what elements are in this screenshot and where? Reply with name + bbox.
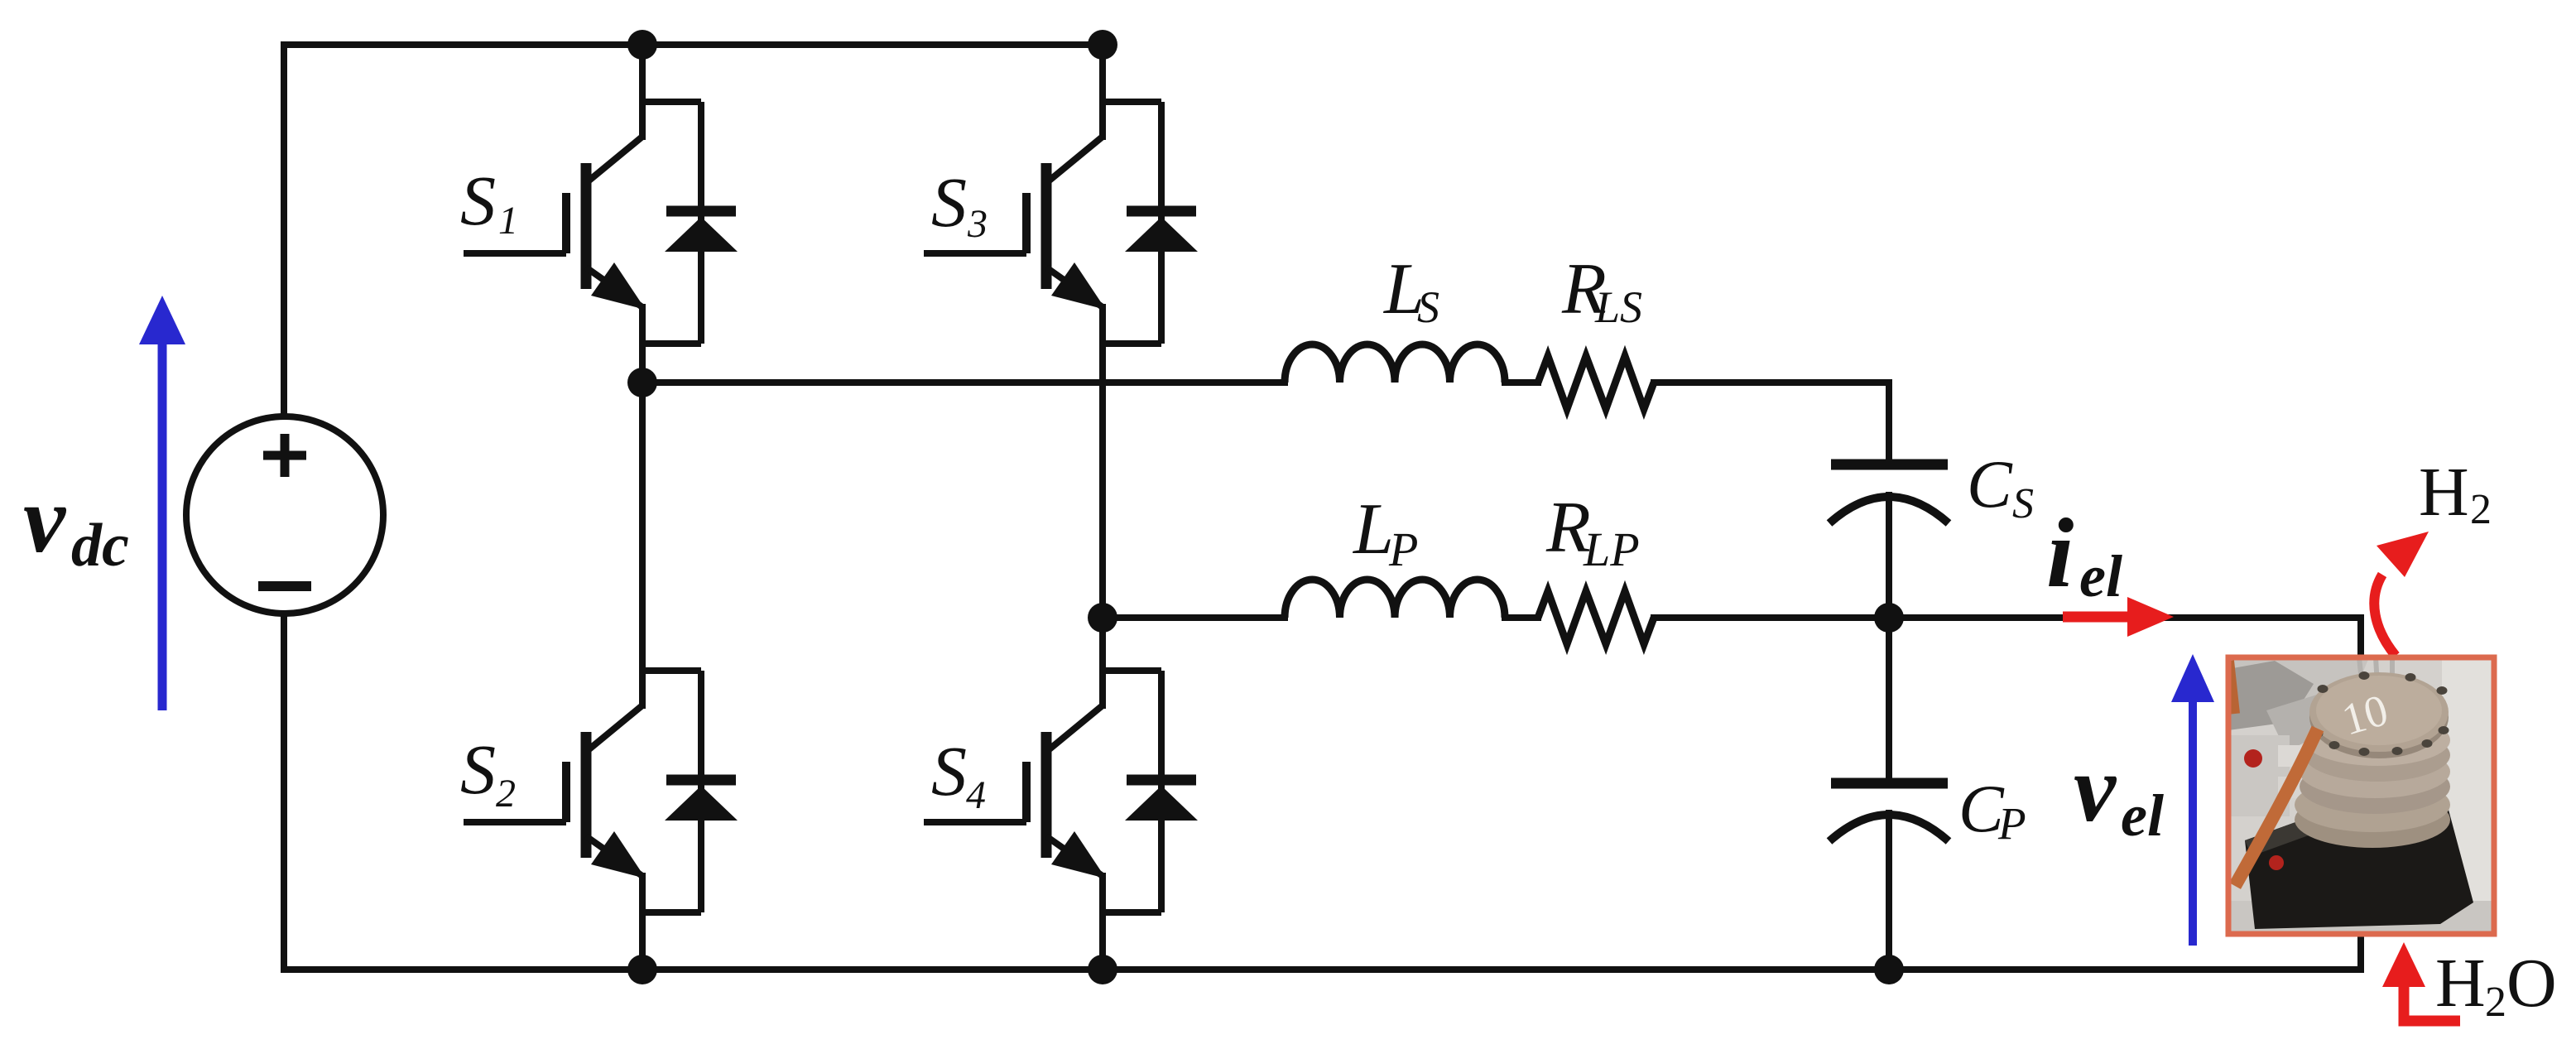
node B (Cs/Cp/Lp junction) [1874,603,1904,633]
node top rail / left leg [627,30,657,60]
svg-text:v: v [2074,736,2117,841]
inductor LS [1285,344,1505,383]
node bottom rail / Cp [1874,955,1904,984]
svg-text:S: S [931,162,967,242]
svg-text:S: S [1417,282,1439,332]
diode D4 (antiparallel with S4) [1103,671,1198,912]
svg-text:4: 4 [966,773,986,817]
svg-text:el: el [2079,543,2122,609]
wire Cp to bottom rail vertical [1886,813,1892,970]
label H2O [2435,945,2557,1026]
diode D3 (antiparallel with S3) [1103,102,1198,344]
wire RLS to Cs corner [1654,383,1889,464]
wire between Lp and RLP [1505,614,1538,621]
node bottom rail / right leg [1088,955,1117,984]
svg-text:S: S [460,729,496,809]
arrow H2O in (red) [2382,942,2460,1021]
wire between Ls and RLS [1505,379,1538,386]
svg-text:P: P [1388,522,1418,576]
label vdc [23,467,129,580]
svg-text:S: S [460,161,496,240]
label S4 [931,731,986,817]
node S1-S2 midpoint [627,368,657,397]
svg-text:LP: LP [1583,522,1640,576]
label S3 [931,162,988,246]
wire bottom rail [284,966,2361,973]
wire left vertical (source bottom lead) [281,614,287,970]
transistor S1 (IGBT) [464,137,646,310]
node S3-S4 midpoint [1088,603,1117,633]
wire top rail [284,41,1103,48]
label H2 [2419,454,2492,533]
svg-text:dc: dc [71,512,129,580]
arrow vdc (blue) [139,296,185,710]
resistor RLS [1538,356,1654,409]
transistor S2 (IGBT) [464,705,646,878]
capacitor CS [1829,464,1949,523]
svg-text:C: C [1967,446,2013,522]
label RLS [1561,249,1642,332]
svg-text:i: i [2046,498,2074,608]
wire left vertical (source top lead) [281,45,287,416]
label CP [1958,771,2026,849]
arrow vel (blue) [2171,654,2214,946]
svg-text:1: 1 [498,199,518,243]
svg-text:S: S [2012,480,2034,527]
arrow H2 out (red swoosh) [2374,532,2429,656]
wire node B to electrolyzer corner [1889,614,2361,621]
inductor LP [1285,580,1505,618]
wire S1/S2 midpoint to Ls [642,379,1285,386]
svg-text:P: P [1997,798,2026,849]
svg-text:v: v [23,467,67,572]
wire left leg vertical segments [639,45,646,970]
wire RLP to node B [1654,614,1889,621]
wire right leg vertical segments [1099,45,1106,970]
label LP [1352,489,1418,576]
diode D2 (antiparallel with S2) [642,671,738,912]
node top rail / right leg [1088,30,1117,60]
label LS [1382,249,1439,332]
label S2 [460,729,516,816]
wire electrolyzer right vertical [2357,618,2364,970]
wire S3/S4 midpoint to Lp [1103,614,1285,621]
diode D1 (antiparallel with S1) [642,102,738,344]
voltage source Vdc circle [186,416,383,614]
resistor RLP [1538,591,1654,644]
svg-text:S: S [931,731,967,811]
arrow iel (red) [2063,597,2174,637]
svg-text:H: H [2419,454,2469,531]
label iel [2046,498,2122,609]
transistor S4 (IGBT) [924,705,1106,878]
svg-text:3: 3 [967,202,988,246]
node bottom rail / left leg [627,955,657,984]
capacitor CP [1829,783,1949,841]
transistor S3 (IGBT) [924,137,1106,310]
wire Cs to node B vertical [1886,495,1892,783]
svg-text:LS: LS [1594,282,1642,332]
electrolyzer photo [2228,657,2494,934]
label vel [2074,736,2164,849]
label RLP [1545,488,1640,576]
label CS [1967,446,2034,527]
svg-text:L: L [1352,489,1394,570]
svg-text:O: O [2506,945,2557,1022]
svg-text:H: H [2435,945,2486,1022]
svg-text:2: 2 [496,772,516,816]
svg-text:2: 2 [2485,979,2506,1026]
label S1 [460,161,518,243]
svg-text:2: 2 [2470,486,2492,533]
svg-text:el: el [2121,782,2164,849]
